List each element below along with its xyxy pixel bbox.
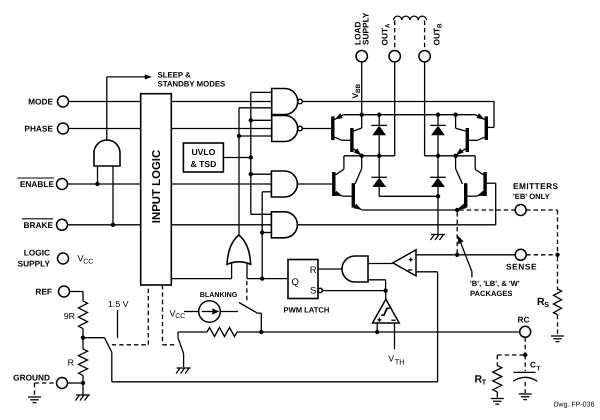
wire comparator minus input to ref rail: [416, 272, 438, 382]
svg-text:REF: REF: [35, 287, 52, 297]
svg-text:BLANKING: BLANKING: [200, 291, 238, 299]
gate AND4 sink B: [271, 212, 297, 238]
label SLEEP & STANDBY MODES: [158, 71, 226, 89]
label 1.5 V with pointer: [108, 299, 129, 338]
node REF divider tap: [81, 336, 85, 340]
terminal PHASE: [24, 123, 68, 134]
wire ground terminal to divider: [68, 382, 84, 384]
wire bridge top rail: [344, 114, 476, 116]
svg-text:ENABLE: ENABLE: [20, 179, 55, 189]
wire vcc to current source: [184, 311, 199, 313]
wire latch R input: [318, 268, 342, 270]
svg-text:PWM LATCH: PWM LATCH: [284, 305, 330, 314]
wire dashed blanking control: [246, 281, 248, 302]
wire UVLO distribution vertical: [251, 92, 272, 214]
resistor 9R: [64, 301, 88, 329]
ground earth at RS: [551, 336, 564, 342]
node emitters junction: [455, 208, 459, 212]
wire sleep gate input stubs: [98, 166, 114, 225]
terminal EMITTERS: [513, 181, 559, 216]
svg-text:PACKAGES: PACKAGES: [470, 289, 512, 298]
block PWM LATCH: [288, 260, 322, 299]
wire schmitt minus input to VTH: [394, 323, 396, 349]
terminal GROUND: [13, 373, 67, 389]
capacitor CT: [513, 355, 540, 393]
ground chassis under R: [76, 383, 91, 401]
label VTH: [388, 354, 404, 367]
wire BRAKE row: [68, 224, 272, 226]
svg-text:& TSD: & TSD: [191, 159, 217, 169]
wire dashed out A to load: [394, 21, 396, 51]
wire UVLO output: [223, 157, 250, 159]
wire AND3 output to sink A base: [297, 183, 332, 185]
switch RC to ground: [178, 332, 184, 367]
wire OUT A rail: [344, 155, 395, 157]
node S junction: [383, 288, 387, 292]
wire dashed input logic to rc switch: [163, 285, 177, 345]
gate OR fast decay: [227, 235, 251, 264]
wire dashed emitters to sense line: [456, 212, 458, 255]
switch blanking: [220, 303, 261, 333]
wire diode ground bus: [379, 196, 438, 234]
svg-text:'EB' ONLY: 'EB' ONLY: [513, 192, 550, 201]
node out B rail junctions: [436, 154, 458, 158]
svg-text:CC: CC: [83, 258, 93, 265]
wire schmitt output to S: [385, 291, 387, 300]
terminal OUT A: [380, 23, 401, 62]
wire OUT B vertical: [424, 62, 426, 156]
diode D2 clamp A bottom: [371, 156, 387, 197]
svg-text:RC: RC: [518, 315, 530, 325]
transistor Q3 source B driver: [469, 113, 488, 140]
transistor Q4 source B output: [456, 115, 469, 156]
gate AND latch reset (left facing): [342, 256, 368, 282]
wire reset AND inputs: [368, 264, 393, 291]
wire comparator plus input to sense: [416, 254, 515, 256]
ground earth at RT: [491, 399, 504, 405]
wire OUT B rail: [425, 155, 476, 157]
resistor blanking: [207, 328, 237, 337]
transistor Q6 sink A output: [352, 156, 362, 210]
wire REF to divider: [70, 292, 84, 302]
svg-text:GROUND: GROUND: [13, 373, 50, 383]
diode D1 clamp A top: [371, 115, 387, 156]
switch REF select: [83, 338, 112, 382]
op-amp schmitt oscillator comparator: [373, 299, 400, 323]
ground earth at GROUND terminal: [28, 397, 41, 403]
svg-text:R: R: [68, 358, 74, 368]
node top rail junctions: [360, 113, 458, 117]
wire OUT A vertical: [394, 62, 396, 156]
wire schmitt plus input stub: [376, 323, 378, 332]
transistor Q7 sink B driver: [467, 156, 486, 196]
svg-text:S: S: [544, 300, 549, 309]
svg-text:SUPPLY: SUPPLY: [361, 12, 371, 45]
svg-text:T: T: [537, 366, 541, 373]
wire MODE row: [69, 101, 272, 103]
node enable-sleep junction: [95, 182, 99, 186]
svg-text:C: C: [530, 360, 536, 370]
svg-text:INPUT LOGIC: INPUT LOGIC: [151, 150, 163, 223]
diode D3 clamp B top: [430, 115, 446, 156]
wire emitters rail: [362, 209, 457, 211]
transistor Q2 source A output: [350, 115, 362, 156]
gate sleep AND: [94, 140, 120, 166]
transistor Q5 sink A driver: [332, 156, 352, 196]
current source blanking: [199, 301, 221, 323]
svg-text:BRAKE: BRAKE: [23, 220, 53, 230]
svg-text:R: R: [310, 265, 317, 276]
svg-text:UVLO: UVLO: [191, 147, 215, 157]
inductor load winding: [394, 16, 427, 20]
resistor RT: [475, 366, 502, 398]
svg-text:SLEEP &: SLEEP &: [158, 71, 192, 80]
terminal LOGIC SUPPLY: [18, 248, 69, 269]
node diode ground junction: [436, 194, 440, 198]
wire dashed to RS: [557, 257, 559, 290]
wire dashed to RT: [497, 355, 525, 366]
wire latch Q vertical: [262, 192, 271, 279]
ground chassis bridge: [431, 235, 446, 241]
terminal ENABLE (active low): [18, 178, 68, 190]
terminal OUT B: [419, 23, 443, 62]
svg-text:S: S: [310, 285, 316, 296]
terminal BRAKE (active low): [22, 219, 68, 231]
wire OR left input from input logic: [171, 278, 231, 280]
svg-text:TH: TH: [395, 358, 405, 367]
node latch Q taps: [260, 230, 264, 280]
node schmitt rc tap: [375, 330, 379, 334]
wire sleep gate output to arrow: [107, 74, 152, 140]
terminal SENSE: [506, 249, 537, 271]
svg-text:V: V: [388, 354, 394, 364]
wire AND4 output to sink B base: [297, 183, 495, 225]
wire bottom rail to comparator: [112, 381, 438, 383]
svg-text:1.5 V: 1.5 V: [108, 299, 129, 309]
wire dashed input logic to ref switch: [112, 285, 149, 345]
wire VBB supply: [361, 62, 363, 115]
svg-text:Dwg. FP-036: Dwg. FP-036: [554, 402, 595, 409]
node sense junction: [455, 253, 459, 257]
node OR output tap: [237, 134, 241, 138]
label B LB W packages with arrow: [458, 235, 520, 298]
node brake-sleep junction: [111, 223, 115, 227]
node sense resistor junction: [555, 253, 559, 257]
wire NAND2 output to left base: [302, 128, 331, 130]
op-amp current comparator: [393, 250, 416, 276]
wire 9R to node: [82, 329, 84, 338]
gate AND3 sink A: [271, 171, 297, 197]
diode D4 clamp B bottom: [430, 156, 446, 197]
block INPUT LOGIC: [141, 94, 172, 285]
svg-text:EMITTERS: EMITTERS: [513, 181, 559, 191]
svg-text:SENSE: SENSE: [506, 262, 537, 272]
wire dashed emitters right: [526, 210, 557, 255]
wire NAND1 output to right base: [302, 102, 494, 128]
wire dashed RS to ground: [557, 315, 559, 335]
resistor R: [68, 338, 88, 383]
wire latch S line: [322, 290, 385, 292]
svg-text:T: T: [482, 378, 487, 387]
wire RC line left: [178, 331, 207, 333]
wire RC line right: [237, 331, 520, 333]
wire dashed RC down: [524, 337, 526, 355]
resistor RS: [537, 289, 562, 315]
node blanking junction: [259, 330, 263, 334]
node RC junction: [523, 353, 527, 357]
svg-text:'B', 'LB', & 'W': 'B', 'LB', & 'W': [470, 279, 520, 288]
svg-text:CC: CC: [175, 313, 185, 320]
wire ENABLE row: [68, 183, 272, 185]
gate NAND1 source A: [272, 89, 303, 115]
transistor Q8 sink B output: [456, 156, 468, 210]
terminal REF: [35, 286, 69, 297]
label VBB: [350, 83, 362, 98]
svg-text:PHASE: PHASE: [24, 124, 53, 134]
node ground junction: [81, 381, 85, 385]
wire dashed ground terminal left: [35, 383, 57, 396]
node UVLO taps: [249, 118, 253, 176]
wire dashed out B to load: [424, 21, 426, 51]
wire OR input stubs: [232, 263, 247, 279]
gate NAND2 source B: [272, 116, 303, 142]
svg-text:Q: Q: [292, 277, 299, 288]
block UVLO & TSD: [183, 143, 223, 172]
terminal MODE: [28, 96, 68, 107]
svg-text:9R: 9R: [64, 311, 75, 321]
node out A rail junctions: [360, 154, 382, 158]
terminal RC: [518, 315, 531, 338]
label VCC at blanking source: [170, 309, 186, 321]
ground chassis at rc switch: [176, 368, 191, 374]
wire OR output vertical: [239, 108, 272, 236]
transistor Q1 source A driver: [331, 113, 350, 140]
svg-text:MODE: MODE: [28, 97, 53, 107]
wire latch Q line: [247, 278, 288, 280]
wire dashed emitters to terminal: [459, 209, 515, 211]
terminal LOAD SUPPLY: [353, 12, 371, 62]
ground earth at CT: [519, 394, 532, 400]
wire dashed sense right: [526, 254, 557, 256]
svg-text:SUPPLY: SUPPLY: [18, 259, 51, 269]
svg-text:STANDBY MODES: STANDBY MODES: [158, 80, 226, 89]
svg-text:LOGIC: LOGIC: [24, 248, 50, 258]
wire PHASE row: [69, 128, 272, 130]
label VCC at logic supply: [78, 254, 94, 266]
